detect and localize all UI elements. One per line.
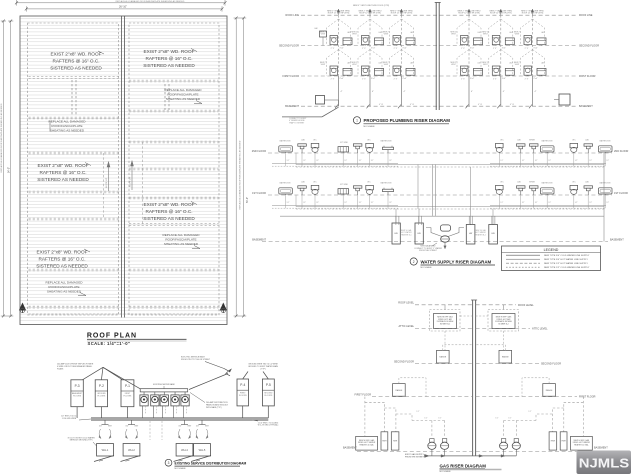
svg-text:1ST FLOOR: 1ST FLOOR: [614, 192, 628, 195]
svg-text:BATHROOM: BATHROOM: [542, 140, 553, 143]
svg-text:BATHROOM: BATHROOM: [542, 182, 553, 185]
fixture group labels row 1: [280, 181, 611, 187]
branch circuit group G2: [125, 420, 139, 439]
range branch 1st-left: [399, 378, 426, 397]
svg-text:GAS RISER DIAGRAM: GAS RISER DIAGRAM: [440, 463, 487, 468]
left roof patch vertical dashes: [72, 80, 76, 116]
ground slash G2: [121, 456, 141, 462]
svg-text:ATTIC LEVEL: ATTIC LEVEL: [532, 327, 548, 330]
svg-text:WH-1: WH-1: [102, 448, 109, 452]
svg-text:HW: HW: [492, 233, 495, 235]
svg-text:1: 1: [356, 119, 358, 123]
manifold piping: [280, 216, 604, 237]
lavatory r1-5: [584, 186, 593, 195]
svg-text:1/2": 1/2": [535, 160, 538, 162]
svg-text:3"x4": 3"x4": [402, 78, 407, 80]
svg-text:RANGE: RANGE: [546, 389, 553, 392]
svg-text:SISTERED AS NEEDED: SISTERED AS NEEDED: [37, 177, 89, 182]
svg-text:1/2": 1/2": [371, 202, 374, 204]
gas range second floor right: [499, 350, 512, 363]
electrical title: [165, 459, 246, 470]
fixture group labels row 2: [280, 139, 611, 145]
svg-text:RAFTERS @ 16" O.C.: RAFTERS @ 16" O.C.: [145, 209, 192, 214]
svg-text:54'-0": 54'-0": [8, 167, 11, 173]
svg-text:ROOF LEVEL: ROOF LEVEL: [398, 302, 414, 305]
svg-text:3: 3: [168, 461, 170, 465]
svg-text:2" 3": 2" 3": [331, 78, 335, 80]
svg-text:1/2": 1/2": [371, 160, 374, 162]
svg-text:WH-4: WH-4: [181, 448, 188, 452]
svg-text:HWH: HWH: [561, 441, 566, 443]
water heater box left: [356, 436, 378, 450]
water closet r1-2: [366, 185, 374, 195]
svg-text:SECOND FLOOR: SECOND FLOOR: [579, 45, 599, 48]
svg-text:HEATER B-2: HEATER B-2: [475, 233, 485, 236]
svg-text:NO SCALE: NO SCALE: [175, 467, 187, 470]
plumbing floor level lines: [301, 15, 576, 106]
svg-text:FLOORS: FLOORS: [264, 395, 273, 397]
svg-text:EXIST 2"x8" WD. ROOF: EXIST 2"x8" WD. ROOF: [38, 163, 89, 168]
svg-text:BATHROOM: BATHROOM: [280, 182, 291, 185]
svg-text:1/2": 1/2": [416, 411, 419, 413]
lavatory r2-4: [530, 144, 539, 153]
lavatory r1-3: [517, 186, 526, 195]
top dimension line (inner): [25, 5, 224, 12]
service mast weatherhead: [224, 369, 232, 376]
svg-text:WH-2: WH-2: [128, 448, 135, 452]
svg-text:W 1-#8 GRD (TYPICAL): W 1-#8 GRD (TYPICAL): [258, 424, 279, 427]
svg-text:KIT SINK: KIT SINK: [340, 184, 349, 186]
svg-text:26'-10": 26'-10": [119, 5, 127, 9]
svg-text:FROM UTILITY POLE IN STREET: FROM UTILITY POLE IN STREET: [181, 359, 211, 361]
svg-text:SECOND FLOOR: SECOND FLOOR: [541, 363, 561, 366]
hot water heater tank 1: [392, 223, 400, 244]
svg-text:FLOORS: FLOORS: [239, 395, 248, 397]
svg-text:RAFTERS @ 16" O.C.: RAFTERS @ 16" O.C.: [145, 56, 192, 61]
plumbing riser title: [353, 117, 450, 128]
svg-text:2" 3": 2" 3": [525, 78, 529, 80]
roof slope arrow right: [130, 161, 134, 190]
svg-text:FIRST FLOOR: FIRST FLOOR: [579, 75, 596, 78]
bathtub r2-3: [599, 146, 613, 153]
svg-text:P-1: P-1: [125, 384, 130, 388]
svg-text:KIT SINK: KIT SINK: [340, 142, 349, 144]
svg-text:3/4": 3/4": [99, 426, 102, 428]
water closet r2-3: [496, 143, 504, 153]
svg-text:FIRST FLOOR: FIRST FLOOR: [355, 393, 372, 396]
svg-text:1/2": 1/2": [575, 160, 578, 162]
svg-text:3"x4": 3"x4": [402, 48, 407, 50]
svg-text:3"x4": 3"x4": [339, 78, 344, 80]
house trap and sewer exit: [282, 107, 339, 124]
HWH box left 1: [381, 432, 388, 450]
svg-text:1/2": 1/2": [508, 418, 511, 420]
bus annotation left: [61, 416, 91, 421]
right roof patch vertical dashes: [165, 84, 169, 110]
svg-text:SHEATING AS NEEDED: SHEATING AS NEEDED: [50, 129, 85, 133]
svg-text:REPLACE ALL DAMAGED ROOF/FASCI: REPLACE ALL DAMAGED ROOF/FASCIA/PLATE SH…: [0, 103, 3, 172]
svg-text:FROM THE STREET: FROM THE STREET: [419, 250, 438, 252]
roof plan title underline: [87, 338, 187, 340]
svg-text:(TYP): (TYP): [261, 369, 266, 371]
pipe size labels along basement line: [379, 104, 515, 106]
svg-text:1/2": 1/2": [438, 418, 441, 420]
svg-text:2" 3": 2" 3": [362, 78, 366, 80]
svg-text:WATER SUPPLY RISER DIAGRAM: WATER SUPPLY RISER DIAGRAM: [421, 259, 492, 264]
svg-text:3"x4": 3"x4": [371, 48, 376, 50]
expansion tank: [441, 225, 451, 231]
svg-text:1/2": 1/2": [606, 160, 609, 162]
bathtub r1-3: [599, 188, 613, 195]
svg-text:4" CI: 4" CI: [510, 104, 515, 106]
svg-text:REPLACE ALL DAMAGED: REPLACE ALL DAMAGED: [45, 281, 83, 285]
svg-text:3"x4": 3"x4": [533, 78, 538, 80]
range branch 1st-right: [522, 378, 549, 397]
party wall center line: [122, 16, 125, 318]
svg-text:1/2": 1/2": [606, 202, 609, 204]
svg-text:P-2: P-2: [99, 384, 104, 388]
gas riser stack: [471, 300, 477, 456]
svg-text:1/2": 1/2": [389, 202, 392, 204]
shower fixture r2-1: [383, 146, 394, 153]
svg-text:EXIST 2"x8" WD. ROOF: EXIST 2"x8" WD. ROOF: [144, 202, 195, 207]
svg-text:SCALE: 1/4"=1'-0": SCALE: 1/4"=1'-0": [88, 341, 131, 346]
water closet r1-3: [496, 185, 504, 195]
water closet r1-1: [311, 185, 319, 195]
right dimension lines: [234, 17, 247, 318]
svg-text:2" 3": 2" 3": [525, 48, 529, 50]
svg-text:SLOPE 1/4": SLOPE 1/4": [106, 178, 108, 188]
laundry box (right basement): [554, 94, 570, 105]
svg-text:1/2": 1/2": [344, 202, 347, 204]
svg-text:SHEATING AS NEEDED: SHEATING AS NEEDED: [47, 290, 82, 294]
svg-text:ROOF LINE: ROOF LINE: [286, 14, 300, 17]
furnace drop right: [503, 331, 505, 350]
attic furnace left: [430, 305, 461, 331]
svg-text:EXIST 2"x8" WD. ROOF: EXIST 2"x8" WD. ROOF: [51, 52, 102, 57]
svg-text:1/2": 1/2": [495, 418, 498, 420]
gas range first floor right: [543, 384, 556, 397]
svg-text:1/2": 1/2": [500, 202, 503, 204]
svg-text:ROOF LINE: ROOF LINE: [579, 14, 593, 17]
distribution panel annotation: [190, 393, 229, 409]
svg-text:SLOPE 1/4": SLOPE 1/4": [130, 177, 132, 187]
lavatory r2-3: [517, 144, 526, 153]
HWH box right 1: [549, 432, 557, 450]
svg-text:SECOND FLOOR: SECOND FLOOR: [279, 45, 299, 48]
right roof area dashed boundary: [129, 23, 219, 315]
plumbing fixture cluster E: [482, 9, 514, 106]
electrical panel P-2: [95, 380, 107, 407]
svg-text:2" 3": 2" 3": [461, 48, 465, 50]
furnace drop left: [444, 331, 446, 350]
water supply mains and risers: [296, 153, 604, 242]
svg-text:NEW TYPE 3/4" COLD WATER LINE: NEW TYPE 3/4" COLD WATER LINE SUPPLY: [544, 254, 590, 257]
attic furnace right: [488, 305, 519, 331]
svg-text:SHWR: SHWR: [529, 182, 535, 184]
svg-text:2" 3": 2" 3": [362, 48, 366, 50]
lavatory r2-2: [353, 144, 362, 153]
svg-text:3/4": 3/4": [196, 426, 199, 428]
branch circuit group G1: [99, 420, 113, 439]
svg-text:4" CI: 4" CI: [410, 104, 415, 106]
svg-text:RAFTERS @ 16" O.C.: RAFTERS @ 16" O.C.: [52, 59, 99, 64]
water supply floor labels: [252, 150, 629, 242]
svg-text:REPLACE ALL DAMAGED: REPLACE ALL DAMAGED: [48, 120, 86, 124]
furnace branch left: [460, 315, 473, 317]
water heater load WH-2: [123, 444, 140, 457]
water supply floor level lines: [262, 153, 612, 242]
gas riser level lines and labels: [343, 302, 608, 452]
roof slope arrow left: [106, 162, 110, 191]
basement pipe size labels: [416, 411, 531, 420]
svg-text:P-5: P-5: [266, 383, 271, 387]
svg-text:FIRST FLOOR: FIRST FLOOR: [283, 75, 300, 78]
svg-text:RANGE: RANGE: [502, 356, 509, 359]
roof rafter lines: [21, 19, 228, 321]
svg-text:WH-5: WH-5: [199, 448, 206, 452]
water closet r2-4: [570, 143, 578, 153]
svg-text:SHEATING AS NEEDED: SHEATING AS NEEDED: [166, 97, 201, 101]
svg-text:4": 4": [404, 91, 406, 93]
svg-text:FROM THE STREET: FROM THE STREET: [405, 456, 425, 458]
gas range second floor left: [437, 350, 450, 363]
svg-text:BASEMENT: BASEMENT: [252, 238, 266, 241]
svg-text:ROOF/FASCIA/PLATE: ROOF/FASCIA/PLATE: [51, 124, 82, 128]
right roof section divider lines: [129, 80, 219, 308]
svg-text:1/2": 1/2": [522, 202, 525, 204]
lavatory r2-5: [584, 144, 593, 153]
kitchen sink r2-1: [338, 147, 349, 153]
hot water heater tank 3: [466, 225, 475, 245]
svg-text:REPLACE ALL DAMAGED: REPLACE ALL DAMAGED: [164, 88, 202, 92]
feeder annotation left: [57, 363, 94, 371]
kitchen sink r1-1: [338, 189, 349, 195]
svg-text:SHEATING AS NEEDED: SHEATING AS NEEDED: [164, 242, 199, 246]
svg-text:HWH: HWH: [393, 441, 398, 443]
svg-text:1/2": 1/2": [287, 202, 290, 204]
svg-text:1/2": 1/2": [528, 411, 531, 413]
svg-text:SISTERED AS NEEDED: SISTERED AS NEEDED: [143, 216, 195, 221]
svg-text:FLOORS: FLOORS: [98, 396, 107, 398]
svg-text:4": 4": [535, 91, 537, 93]
svg-text:3"x4": 3"x4": [502, 48, 507, 50]
svg-text:ROOF PLAN: ROOF PLAN: [87, 333, 137, 340]
plumbing fixture cluster B: [351, 9, 383, 106]
svg-text:1/2": 1/2": [316, 160, 319, 162]
legend box: [502, 246, 601, 271]
svg-text:1ST FLOOR: 1ST FLOOR: [252, 192, 266, 195]
lavatory r1-2: [353, 186, 362, 195]
svg-text:1/2": 1/2": [303, 160, 306, 162]
svg-text:PLANS: PLANS: [57, 368, 64, 371]
svg-text:SHWR: SHWR: [529, 140, 535, 142]
svg-text:BASEMENT: BASEMENT: [285, 105, 299, 108]
svg-text:4": 4": [503, 91, 505, 93]
svg-text:80 MBH B-2: 80 MBH B-2: [440, 323, 450, 325]
svg-text:NEW 4" VENT LINE THRU ROOF (VT: NEW 4" VENT LINE THRU ROOF (VTR): [353, 5, 390, 7]
range branch 2nd-left: [443, 345, 473, 351]
svg-text:1#10 GRD WIRE: 1#10 GRD WIRE: [62, 418, 77, 420]
water service notes: [414, 243, 442, 252]
svg-text:BATHROOM: BATHROOM: [381, 140, 392, 143]
svg-text:FIRST FLOOR: FIRST FLOOR: [579, 396, 596, 399]
electrical panel P-5: [262, 379, 274, 406]
svg-text:3"x4": 3"x4": [470, 48, 475, 50]
gas meter GM1: [428, 439, 436, 456]
svg-text:P-4: P-4: [240, 383, 245, 387]
svg-text:ROOF/FASCIA/PLATE: ROOF/FASCIA/PLATE: [48, 285, 79, 289]
svg-text:SISTERED AS NEEDED: SISTERED AS NEEDED: [143, 63, 195, 68]
svg-text:EXIST 2"x8" WD. ROOF: EXIST 2"x8" WD. ROOF: [37, 250, 88, 255]
ground slash G3: [174, 456, 194, 462]
water supply riser title: [410, 258, 495, 269]
svg-text:NO SCALE: NO SCALE: [421, 266, 433, 269]
junction ticks on basement line: [335, 105, 532, 109]
svg-text:NO SCALE: NO SCALE: [440, 470, 452, 473]
svg-text:BASEMENT: BASEMENT: [579, 105, 593, 108]
bus annotation right: [252, 420, 279, 427]
water heater load WH-5: [194, 444, 211, 457]
svg-text:BASEMENT: BASEMENT: [343, 446, 357, 449]
bottom-right corner marker: [220, 304, 226, 314]
bathtub r1-1: [279, 188, 293, 195]
tank note right: [475, 229, 486, 236]
svg-text:BASEMENT: BASEMENT: [610, 239, 624, 242]
water heater box right: [571, 436, 593, 450]
lavatory r1-1: [298, 186, 307, 195]
bathtub r2-1: [279, 146, 293, 153]
meter bank bus: [140, 389, 188, 392]
svg-text:BASEMENT: BASEMENT: [594, 446, 608, 449]
feeder annotation right: [248, 364, 278, 371]
water closet r2-1: [311, 143, 319, 153]
lower distribution bus: [91, 418, 268, 420]
svg-text:EXISTING METER BANK: EXISTING METER BANK: [153, 383, 175, 386]
svg-text:PROPOSED PLUMBING RISER DIAGRA: PROPOSED PLUMBING RISER DIAGRAM: [364, 118, 451, 123]
svg-text:2" 3": 2" 3": [461, 78, 465, 80]
water heater load WH-4: [176, 444, 193, 457]
svg-text:WITH MAIN (TYP): WITH MAIN (TYP): [206, 406, 222, 409]
svg-text:HEATER 40 GAL: HEATER 40 GAL: [359, 443, 373, 446]
electrical panel P-3: [71, 380, 83, 407]
service drop to meter bank: [189, 374, 228, 390]
svg-text:NEW TYPE 3/4" HOT WATER LINE S: NEW TYPE 3/4" HOT WATER LINE SUPPLY: [544, 258, 588, 261]
svg-text:1/2": 1/2": [548, 202, 551, 204]
gas meter GM4: [512, 439, 520, 456]
bottom-left corner marker: [20, 304, 26, 314]
interior dashed verticals near wall: [104, 142, 143, 225]
svg-text:3"x4": 3"x4": [470, 78, 475, 80]
feeder wires to left panels: [83, 367, 141, 388]
electric meter M2: [151, 392, 159, 418]
svg-text:1/2": 1/2": [287, 160, 290, 162]
left dimension lines: [1, 20, 14, 318]
svg-text:FLOORS: FLOORS: [73, 396, 82, 398]
gas range first floor left: [393, 384, 406, 397]
bathtub r1-2: [541, 188, 555, 195]
plumbing floor level labels: [279, 14, 599, 108]
top dimension line (outer): [15, 0, 227, 6]
svg-text:HW: HW: [469, 233, 472, 235]
svg-text:1/2": 1/2": [548, 160, 551, 162]
svg-text:1/2": 1/2": [359, 160, 362, 162]
svg-text:1/2": 1/2": [316, 202, 319, 204]
svg-text:RAFTERS @ 16" O.C.: RAFTERS @ 16" O.C.: [38, 257, 85, 262]
plumbing fixture cluster F: [514, 9, 546, 106]
gas riser title: [440, 463, 502, 473]
svg-text:REPLACE ALL DAMAGED ROOF/FASCI: REPLACE ALL DAMAGED ROOF/FASCIA/PLATE SH…: [239, 140, 242, 209]
svg-text:2: 2: [413, 260, 415, 264]
water heater load WH-1: [97, 444, 114, 457]
gas meter GM3: [500, 439, 508, 456]
svg-text:SISTERED AS NEEDED: SISTERED AS NEEDED: [50, 66, 102, 71]
HWH box right 2: [560, 432, 567, 450]
tank note left: [401, 229, 412, 236]
svg-text:HW: HW: [395, 233, 398, 235]
svg-text:ROOF LEVEL: ROOF LEVEL: [518, 304, 534, 307]
HWH box left 2: [391, 432, 399, 450]
svg-text:4" CI: 4" CI: [379, 104, 384, 106]
spare riser dashes: [150, 421, 162, 440]
svg-text:2ND FLOOR: 2ND FLOOR: [614, 150, 629, 153]
svg-text:BATHROOM: BATHROOM: [381, 182, 392, 185]
hot water heater tank 2: [415, 223, 423, 244]
svg-text:1/2": 1/2": [424, 418, 427, 420]
svg-text:2" 3": 2" 3": [394, 78, 398, 80]
svg-text:TRAP TO STREET: TRAP TO STREET: [289, 121, 305, 124]
svg-text:EXIST 2"x8" WD. ROOF: EXIST 2"x8" WD. ROOF: [144, 49, 195, 54]
svg-text:4": 4": [471, 91, 473, 93]
lavatory r1-4: [530, 186, 539, 195]
svg-text:RANGE: RANGE: [439, 356, 446, 359]
svg-text:SISTERED AS NEEDED: SISTERED AS NEEDED: [36, 264, 88, 269]
electric meter M3: [160, 392, 168, 418]
svg-text:FLOORS: FLOORS: [124, 396, 133, 398]
svg-text:ROOF/FASCIA/PLATE: ROOF/FASCIA/PLATE: [167, 93, 198, 97]
svg-text:NEW TYPE 1/2" HOT WATER LINE S: NEW TYPE 1/2" HOT WATER LINE SUPPLY: [544, 262, 588, 265]
svg-text:HEATER B-1: HEATER B-1: [401, 233, 411, 236]
svg-text:HEATER 40 GAL: HEATER 40 GAL: [574, 443, 588, 446]
lavatory at far left: [314, 27, 326, 46]
shower fixture r1-1: [383, 188, 394, 195]
svg-text:3"x4": 3"x4": [502, 78, 507, 80]
branch circuit group G4: [196, 420, 210, 439]
svg-text:1/2": 1/2": [359, 202, 362, 204]
feeder wires to right panels: [243, 372, 269, 380]
plumbing fixture cluster A: [320, 9, 352, 106]
ground slash G4: [191, 456, 211, 462]
svg-text:HWH: HWH: [382, 441, 387, 443]
basement gas piping right: [504, 397, 584, 438]
electric meter M5: [181, 392, 189, 418]
svg-text:RANGE: RANGE: [396, 389, 403, 392]
svg-text:1/2": 1/2": [522, 160, 525, 162]
svg-text:ATTIC LEVEL: ATTIC LEVEL: [398, 325, 414, 328]
gas supply main from street: [405, 453, 516, 459]
svg-text:REPLACE ALL DAMAGED: REPLACE ALL DAMAGED: [162, 233, 200, 237]
water closet r2-2: [366, 143, 374, 153]
NJMLS watermark: [577, 451, 631, 474]
tank labels: [395, 233, 495, 235]
svg-text:LEGEND: LEGEND: [544, 248, 559, 252]
svg-text:4" CI: 4" CI: [478, 104, 483, 106]
svg-text:2" 3": 2" 3": [394, 48, 398, 50]
svg-text:3/4": 3/4": [125, 426, 128, 428]
plumbing fixture cluster C: [383, 9, 415, 106]
plumbing soil stack: [435, 3, 441, 111]
washing machine box (left basement): [316, 96, 339, 107]
